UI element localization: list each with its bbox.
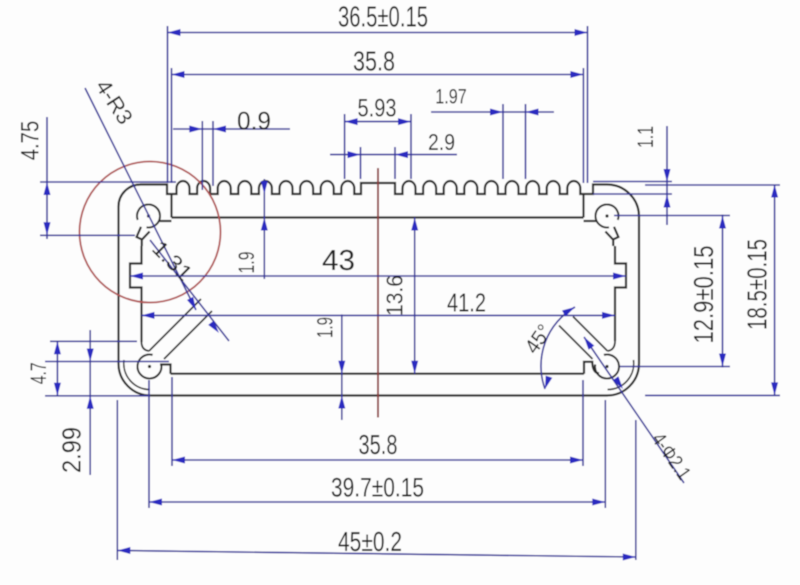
dim 0.9 left arrow (189, 126, 202, 133)
dim 39.7 left arrow (149, 499, 162, 506)
bottom-right boss slot lip lower (559, 326, 593, 360)
dim 45pm ext b (635, 420, 637, 560)
profile outer outline with heatsink fins (119, 181, 640, 395)
dim 36.5 left extension (167, 26, 169, 183)
dim 4.75 ext a (40, 181, 176, 183)
dim 35.8 top right arrow (570, 71, 583, 78)
dim 13.6 bottom arrow (411, 361, 418, 374)
bottom-left screw boss circle (137, 354, 161, 378)
dim 13.6 top arrow (411, 218, 418, 231)
dim 2.99 ext (45, 361, 169, 363)
dim 45pm right arrow (623, 554, 636, 561)
leader 4-phi2.1 arrow b (613, 376, 623, 389)
svg-text:1.9: 1.9 (234, 252, 259, 274)
dim 41.2 line (142, 314, 616, 316)
dim 43 right arrow (613, 273, 626, 280)
svg-text:13.6: 13.6 (382, 275, 408, 316)
svg-text:2.99: 2.99 (57, 427, 87, 473)
dim 1.1 line (666, 126, 668, 225)
bottom-left boss center dot (148, 365, 151, 368)
dim 45deg arrow a (562, 307, 575, 317)
dim 1.97 ext b (525, 104, 527, 179)
bottom-right screw boss circle (595, 354, 619, 378)
dim 0.9 ext b (212, 121, 214, 186)
dim 4.75 ext b (40, 234, 135, 236)
svg-text:36.5±0.15: 36.5±0.15 (338, 2, 428, 34)
dim 45pm left arrow (117, 547, 130, 554)
dim 4.7 ext a (50, 340, 137, 342)
svg-text:4.75: 4.75 (17, 121, 45, 161)
dim 12.9 ext a (614, 215, 730, 217)
leader 4-R3 line (85, 88, 196, 310)
svg-text:43: 43 (322, 245, 355, 277)
dim 39.7 right arrow (592, 499, 605, 506)
leader 4-phi2.1 arrow a (584, 337, 594, 350)
bottom-left boss slot lip lower (164, 311, 212, 359)
dim 41.2 right arrow (602, 312, 615, 319)
dim 2.99 arrow a (87, 349, 94, 362)
dim 36.5 right extension (587, 26, 589, 183)
svg-text:1.1: 1.1 (633, 126, 658, 148)
dim 2.9 left arrow (348, 151, 361, 158)
svg-text:12.9±0.15: 12.9±0.15 (688, 246, 719, 344)
dim 36.5 left arrow (168, 29, 181, 36)
dim 1.1 upper arrow (664, 169, 671, 182)
dim 5.93 line (345, 121, 411, 123)
dim 12.9 top arrow (719, 216, 726, 229)
dim 35.8 bottom ext b (582, 380, 584, 466)
dim 35.8 top left arrow (172, 71, 185, 78)
floor step left (160, 365, 171, 374)
dim 2.9 line (330, 154, 457, 156)
dim 2.99 arrow b (87, 396, 94, 409)
svg-text:39.7±0.15: 39.7±0.15 (331, 473, 424, 503)
svg-text:1.9: 1.9 (313, 317, 338, 338)
floor notch right (584, 362, 599, 374)
svg-text:41.2: 41.2 (447, 288, 486, 318)
dim 18.5 top arrow (771, 185, 778, 198)
dim 45deg arrow b (545, 376, 552, 389)
dim 12.9 bottom arrow (719, 354, 726, 367)
top-right screw boss circle (595, 204, 618, 227)
dim 36.5 line (168, 32, 588, 34)
dim 1.9 lower line (341, 314, 343, 420)
inner ceiling right stub (582, 195, 584, 218)
dim 45pm line (117, 551, 636, 558)
top-left boss center dot (147, 214, 150, 217)
svg-text:18.5±0.15: 18.5±0.15 (742, 239, 773, 330)
dim 1.1 ext a (593, 181, 672, 183)
dim 18.5 line (774, 185, 776, 396)
bottom-right inner corner arc (608, 360, 634, 390)
dim 5.93 ext b (410, 114, 412, 179)
dim 0.9 ext a (201, 121, 203, 190)
dim 4.75 bottom arrow (44, 222, 51, 235)
dim 39.7 ext a (148, 380, 150, 508)
dim 43 left arrow (130, 273, 143, 280)
top-left boss step to ceiling (159, 220, 172, 222)
bottom-right boss center dot (605, 365, 608, 368)
svg-text:0.9: 0.9 (237, 108, 271, 136)
dim 2.9 right arrow (395, 151, 408, 158)
dim 1.9 lower arrow a (338, 361, 345, 374)
dim 45pm ext a (116, 400, 118, 560)
dim 39.7 line (149, 501, 605, 503)
svg-text:4.7: 4.7 (26, 362, 51, 384)
dim 1.1 lower arrow (664, 195, 671, 208)
dim 1.9 upper arrow b (261, 218, 268, 231)
dim 13.6 line (414, 218, 416, 374)
inner ceiling left stub (170, 195, 172, 218)
svg-text:5.93: 5.93 (358, 95, 397, 123)
top-left screw boss circle (137, 204, 160, 227)
top-left boss lip (137, 227, 150, 246)
dim 1.9 upper arrow a (261, 181, 268, 194)
dim 4.7 ext b (45, 395, 150, 397)
leader 4-phi2.1 line (584, 337, 684, 483)
left inner wall with groove (130, 246, 142, 342)
bottom-left inner corner arc (124, 360, 150, 390)
dim 2.9 ext b (394, 147, 396, 179)
dim 35.8 bottom ext a (171, 377, 173, 466)
dim 2.9 ext a (360, 147, 362, 179)
dim 1.9 upper line (263, 179, 265, 279)
red highlight circle (80, 162, 221, 303)
svg-text:35.8: 35.8 (359, 429, 398, 460)
dim 1.97 ext a (502, 104, 504, 179)
dim 41.2 left arrow (142, 312, 155, 319)
dim 5.93 right arrow (398, 118, 411, 125)
dim 35.8 bottom line (172, 459, 583, 461)
inner floor line (171, 373, 585, 375)
dim 1.9 lower arrow b (338, 396, 345, 409)
dim 1.1 ext b (593, 193, 672, 195)
dim 1.97 line (431, 111, 554, 113)
inner ceiling line (172, 216, 584, 218)
dim 36.5 right arrow (575, 29, 588, 36)
top-right boss lip (605, 227, 618, 246)
dim 35.8 top line (172, 74, 584, 76)
right inner wall with groove (615, 246, 626, 341)
dim 5.93 left arrow (345, 118, 358, 125)
dim 4.75 line (46, 117, 48, 239)
bottom-left wall-to-lip curl (142, 342, 150, 351)
dim 4.7 line (56, 341, 58, 396)
top-right boss step to ceiling (584, 220, 597, 222)
leader 4-R3 arrow (187, 297, 196, 310)
dim 18.5 bottom arrow (771, 382, 778, 395)
dim 12.9 line (722, 215, 724, 368)
bottom-right boss slot lip upper (573, 317, 608, 352)
dim 1.97 right arrow (526, 109, 539, 116)
svg-text:45±0.2: 45±0.2 (338, 526, 402, 557)
bottom-right wall-to-lip curl (608, 341, 616, 351)
dim 35.8 bottom right arrow (570, 457, 583, 464)
dim 18.5 ext a (645, 184, 780, 186)
dim 35.8 top left extension (171, 68, 173, 183)
red center line (377, 168, 379, 418)
dim 18.5 ext b (645, 394, 780, 396)
svg-text:35.8: 35.8 (353, 46, 395, 77)
leader 1.31 line (150, 240, 229, 341)
svg-text:2.9: 2.9 (428, 129, 455, 155)
dim 5.93 ext a (344, 114, 346, 179)
dim 35.8 bottom left arrow (172, 457, 185, 464)
dim 0.9 right arrow (213, 126, 226, 133)
dim 43 line (130, 275, 626, 277)
top-right boss center dot (605, 214, 608, 217)
dim 4.7 bottom arrow (54, 383, 61, 396)
dim 45deg arc (541, 307, 575, 389)
bottom-left boss slot lip upper (149, 299, 201, 351)
dim 1.97 left arrow (490, 109, 503, 116)
dim 4.75 top arrow (44, 182, 51, 195)
dim 4.7 top arrow (54, 341, 61, 354)
dim 12.9 ext b (620, 366, 730, 368)
dim 39.7 ext b (604, 400, 606, 508)
dim 35.8 top right extension (582, 68, 584, 183)
dim 0.9 line (173, 128, 290, 130)
leader 1.31 arrow (208, 321, 219, 333)
svg-text:1.97: 1.97 (435, 86, 467, 109)
dim 2.99 line (89, 330, 91, 475)
